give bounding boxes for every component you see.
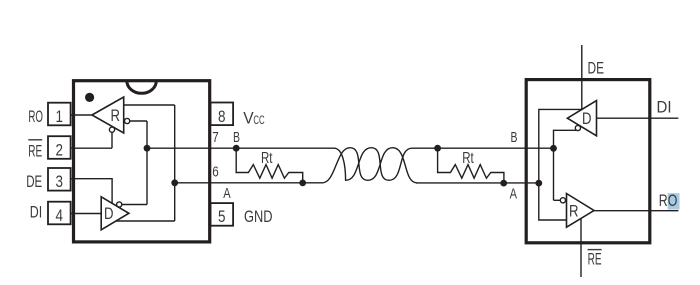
IC U1 notch — [127, 81, 156, 93]
wire U2 D noninverting output to A — [539, 109, 583, 183]
node B junction at left Rt — [233, 145, 240, 152]
pin box 3 — [48, 168, 71, 191]
receiver U2 R inverting input bubble — [560, 198, 565, 203]
svg-text:RO: RO — [659, 192, 678, 210]
node A junction at left Rt — [299, 180, 306, 187]
wire D inverting output to B branch — [122, 204, 147, 206]
svg-text:4: 4 — [56, 206, 64, 225]
pin box 2 — [48, 136, 71, 159]
svg-text:R: R — [110, 107, 120, 125]
driver U1 D — [101, 197, 129, 230]
wire U2 R inverting input from B — [554, 199, 561, 201]
node A junction U2 — [535, 180, 542, 187]
pin box 4 — [48, 202, 71, 225]
receiver U2 R — [567, 194, 595, 228]
wire A line right segment — [416, 182, 539, 184]
wire B line left segment — [147, 147, 334, 149]
label RO highlight — [668, 193, 680, 209]
svg-text:A: A — [223, 185, 230, 202]
IC U2 box — [526, 80, 650, 243]
resistor Rt right — [438, 148, 504, 183]
svg-text:RO: RO — [28, 107, 43, 126]
node A junction internal — [171, 179, 178, 186]
svg-text:B: B — [233, 129, 240, 146]
svg-text:CC: CC — [253, 115, 264, 127]
node A junction at right Rt — [500, 180, 507, 187]
receiver R input bubble B — [125, 118, 130, 123]
wire pin1 RO to R output — [70, 114, 92, 116]
label RE overline — [28, 139, 42, 141]
svg-text:6: 6 — [212, 164, 219, 180]
svg-text:GND: GND — [244, 207, 273, 226]
svg-text:Rt: Rt — [261, 150, 273, 167]
IC U1 package — [74, 81, 210, 242]
pin box 5 — [211, 203, 234, 226]
svg-text:5: 5 — [218, 207, 226, 226]
wire U2 D inverting output to B — [554, 130, 577, 200]
driver U2 D — [567, 101, 596, 136]
wire pin4 DI — [70, 213, 101, 215]
twisted pair wire A — [322, 148, 417, 183]
wire pin3 DE — [70, 179, 112, 204]
svg-text:8: 8 — [218, 107, 226, 126]
wire RE bottom — [580, 218, 582, 277]
svg-text:RE: RE — [588, 250, 602, 269]
svg-text:D: D — [582, 110, 592, 128]
wire B internal vertical — [146, 121, 148, 205]
pin box 1 — [48, 103, 71, 126]
resistor Rt left — [236, 148, 303, 183]
receiver U1 R — [92, 97, 124, 133]
svg-text:R: R — [569, 202, 579, 220]
node B junction U2 — [550, 145, 557, 152]
wire RE enable vertical — [111, 132, 113, 148]
receiver R enable bubble — [109, 127, 114, 132]
svg-text:B: B — [511, 129, 518, 146]
svg-text:2: 2 — [56, 140, 64, 159]
svg-text:Rt: Rt — [462, 150, 474, 167]
twisted pair wire B — [334, 148, 412, 181]
wire U2 R noninverting input from A — [539, 183, 567, 220]
pin box 8 — [211, 103, 234, 126]
wire DI — [597, 117, 679, 119]
IC U1 pin-1 index dot — [85, 93, 94, 102]
wire D noninverting output — [116, 220, 175, 222]
svg-text:D: D — [104, 205, 114, 223]
node B junction at right Rt — [434, 145, 441, 152]
driver U2 D inverting output bubble — [575, 125, 580, 130]
wire R inverting input to B branch — [130, 120, 147, 122]
wire R noninverting input to A branch — [124, 104, 175, 106]
svg-text:3: 3 — [56, 172, 64, 191]
label RE bottom overline — [588, 249, 602, 251]
svg-text:7: 7 — [212, 130, 219, 146]
wire DE top — [581, 45, 583, 109]
node B junction internal — [144, 145, 151, 152]
wire B line right segment — [412, 147, 554, 149]
svg-text:DE: DE — [26, 172, 42, 191]
svg-text:DI: DI — [657, 98, 672, 117]
driver D inverting output bubble — [117, 202, 122, 207]
wire A internal vertical — [174, 105, 176, 221]
svg-text:1: 1 — [56, 107, 64, 126]
wire pin2 RE — [70, 147, 112, 149]
svg-text:DI: DI — [30, 202, 42, 221]
wire A line left segment — [175, 182, 322, 184]
svg-text:A: A — [510, 186, 517, 203]
wire RO output — [594, 210, 678, 212]
svg-text:DE: DE — [588, 59, 605, 78]
svg-text:RE: RE — [28, 142, 42, 161]
